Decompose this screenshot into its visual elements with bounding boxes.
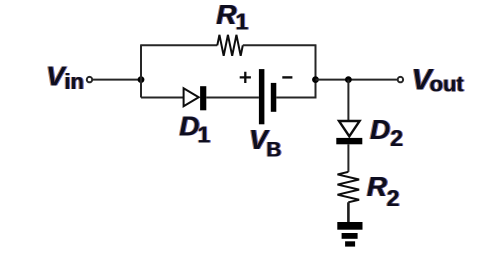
wire Vin terminal to node A	[93, 79, 141, 81]
label D1	[179, 110, 210, 147]
svg-text:1: 1	[198, 121, 211, 147]
svg-text:out: out	[430, 71, 465, 96]
wire top rail left segment	[140, 44, 217, 46]
wire battery to node B (right then up)	[276, 80, 315, 98]
ground	[337, 222, 362, 247]
wire D1 to battery	[206, 97, 259, 99]
wire node C down to diode D2	[347, 80, 349, 121]
minus sign	[282, 76, 292, 78]
wire top rail right segment	[243, 44, 316, 46]
node C junction dot	[345, 76, 352, 83]
plus sign	[240, 72, 251, 83]
svg-text:2: 2	[390, 125, 403, 151]
node B junction dot	[312, 76, 319, 83]
diode D2	[336, 121, 362, 144]
wire left vertical (node A up to top rail, down to lower branch)	[140, 45, 142, 97]
resistor R1	[217, 35, 243, 56]
svg-text:D: D	[179, 110, 199, 141]
wire D2 to R2	[347, 144, 349, 172]
node A junction dot	[138, 76, 145, 83]
svg-text:1: 1	[236, 9, 249, 35]
wire mid rail node B to Vout terminal	[316, 79, 398, 81]
terminal Vin (open circle)	[87, 77, 92, 82]
svg-text:in: in	[64, 69, 84, 94]
wire lower branch left (node A corner to diode D1)	[141, 97, 184, 99]
svg-text:R: R	[216, 0, 237, 30]
label Vout	[412, 63, 465, 96]
diode D1	[184, 86, 207, 110]
label D2	[370, 114, 403, 151]
svg-text:D: D	[370, 114, 390, 145]
terminal Vout (open circle)	[398, 77, 403, 82]
label Vin	[46, 61, 84, 94]
svg-text:R: R	[367, 171, 388, 202]
resistor R2	[338, 172, 360, 202]
label R1	[216, 0, 248, 35]
svg-text:B: B	[266, 138, 281, 161]
wire R2 to ground	[347, 202, 350, 222]
label VB	[249, 124, 282, 161]
wire right vertical (top rail down to node B)	[315, 45, 317, 80]
svg-text:2: 2	[387, 185, 400, 211]
label R2	[367, 171, 400, 211]
battery VB	[259, 69, 276, 124]
